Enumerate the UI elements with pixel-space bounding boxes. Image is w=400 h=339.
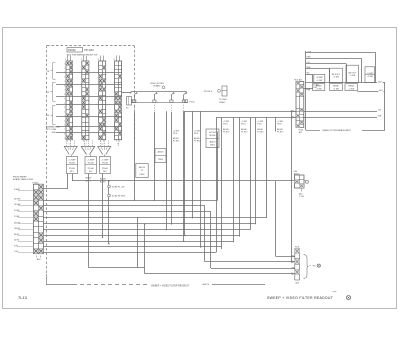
svg-text:2: 2	[64, 68, 65, 70]
svg-text:READOUT INTERFACE ASSY: READOUT INTERFACE ASSY	[323, 129, 352, 132]
svg-text:1 KHZ: 1 KHZ	[14, 216, 20, 218]
svg-text:BOARD VIA A1 P1040: BOARD VIA A1 P1040	[13, 178, 34, 181]
svg-text:P101: P101	[241, 124, 245, 126]
svg-text:1 3: 1 3	[68, 144, 70, 146]
svg-text:A1040: A1040	[100, 178, 107, 181]
svg-text:P101: P101	[277, 124, 281, 126]
svg-text:A1013: A1013	[294, 173, 299, 176]
svg-text:P101: P101	[173, 133, 177, 135]
svg-text:P1 RLY: P1 RLY	[241, 132, 248, 134]
svg-text:RLY: RLY	[70, 171, 74, 173]
svg-text:GRD: GRD	[52, 132, 57, 134]
svg-text:A1013: A1013	[210, 141, 217, 144]
svg-text:+5 SW: +5 SW	[173, 131, 179, 133]
svg-text:P1 RLY: P1 RLY	[223, 132, 230, 134]
svg-text:1 3: 1 3	[117, 144, 119, 146]
svg-text:BOARD: BOARD	[153, 84, 161, 87]
svg-text:RESID: RESID	[316, 86, 322, 88]
svg-text:RE SOLU: RE SOLU	[332, 74, 341, 76]
svg-text:1: 1	[64, 103, 65, 105]
svg-text:P101: P101	[257, 124, 261, 126]
svg-text:+5 SWP: +5 SWP	[316, 77, 324, 79]
svg-text:+5 SW: +5 SW	[277, 121, 283, 123]
svg-text:+5 SW: +5 SW	[333, 77, 339, 79]
svg-text:2: 2	[64, 107, 65, 109]
svg-text:4: 4	[64, 77, 65, 79]
svg-text:A1040: A1040	[194, 137, 199, 140]
svg-text:5: 5	[64, 120, 65, 122]
svg-text:+5 SW: +5 SW	[241, 121, 247, 123]
svg-text:A17: A17	[379, 89, 382, 92]
svg-text:6: 6	[64, 125, 65, 127]
svg-text:P1 RLY: P1 RLY	[257, 132, 264, 134]
svg-text:A10 P6: A10 P6	[203, 283, 210, 286]
svg-text:A10: A10	[296, 282, 299, 285]
svg-text:7L13: 7L13	[18, 295, 28, 300]
svg-text:P1040: P1040	[102, 168, 109, 170]
svg-text:PB 1040: PB 1040	[85, 49, 95, 52]
svg-text:P1040: P1040	[69, 168, 76, 170]
svg-text:P101: P101	[223, 124, 227, 126]
svg-text:+5 SWP: +5 SWP	[101, 160, 109, 162]
svg-text:+5 SW: +5 SW	[257, 121, 263, 123]
svg-text:P1 RLY: P1 RLY	[277, 132, 284, 134]
svg-text:+5 SW: +5 SW	[367, 76, 373, 78]
svg-text:9: 9	[64, 98, 65, 100]
svg-text:+5 SW: +5 SW	[316, 80, 322, 82]
svg-text:VIDEO: VIDEO	[219, 102, 226, 104]
svg-text:5VB: 5VB	[378, 115, 382, 117]
svg-text:+5 SW: +5 SW	[316, 88, 322, 90]
svg-text:SWEEP + VIDEO FILTER READOUT: SWEEP + VIDEO FILTER READOUT	[151, 285, 190, 288]
svg-text:1: 1	[64, 63, 65, 65]
svg-text:6: 6	[64, 85, 65, 87]
svg-text:MODE: MODE	[210, 135, 217, 137]
svg-text:P1040: P1040	[33, 182, 40, 184]
svg-text:P101: P101	[190, 101, 196, 103]
svg-text:ASSEMBLY A10: ASSEMBLY A10	[46, 125, 60, 128]
svg-text:7: 7	[64, 129, 65, 131]
svg-text:+5 SW: +5 SW	[194, 131, 200, 133]
svg-text:RLY: RLY	[89, 171, 93, 173]
svg-text:A17: A17	[299, 131, 302, 134]
svg-text:RLY: RLY	[103, 171, 107, 173]
svg-text:A10: A10	[299, 192, 302, 195]
svg-text:8: 8	[64, 133, 65, 135]
svg-text:+5 SW: +5 SW	[223, 121, 229, 123]
svg-text:P101: P101	[299, 129, 303, 131]
svg-text:RESID: RESID	[333, 86, 339, 88]
svg-text:P1040: P1040	[88, 163, 95, 165]
svg-text:9: 9	[64, 138, 65, 140]
svg-text:SWEEP + VIDEO FILTER READOUT: SWEEP + VIDEO FILTER READOUT	[267, 296, 334, 300]
svg-text:1 3: 1 3	[101, 144, 103, 146]
svg-text:P1040: P1040	[68, 48, 76, 52]
svg-text:A1040: A1040	[277, 128, 282, 131]
svg-text:TO A2 P6 GRD: TO A2 P6 GRD	[112, 194, 126, 197]
svg-text:4: 4	[64, 116, 65, 118]
svg-text:P1013 S: P1013 S	[204, 91, 213, 93]
svg-text:7: 7	[64, 90, 65, 92]
svg-text:+5 SWP: +5 SWP	[87, 160, 95, 162]
svg-text:5 MHZ: 5 MHZ	[14, 189, 21, 191]
svg-text:3: 3	[64, 112, 65, 114]
svg-text:+5 SW: +5 SW	[348, 88, 354, 90]
svg-text:P1040: P1040	[88, 168, 95, 170]
svg-text:P1040: P1040	[102, 163, 109, 165]
svg-text:RESID: RESID	[348, 86, 354, 88]
svg-text:75 OHM: 75 OHM	[219, 99, 227, 101]
svg-text:3: 3	[64, 72, 65, 74]
svg-text:P2 RLY: P2 RLY	[194, 141, 201, 143]
svg-text:TO A2 P5 +5V: TO A2 P5 +5V	[112, 185, 125, 188]
svg-text:P1040: P1040	[69, 163, 76, 165]
svg-text:+5 SW: +5 SW	[349, 75, 355, 77]
svg-text:P 101: P 101	[299, 196, 304, 198]
svg-text:cont: cont	[333, 290, 337, 293]
svg-text:A1013: A1013	[158, 151, 165, 154]
svg-text:P101: P101	[295, 247, 299, 249]
svg-text:+5 SW: +5 SW	[333, 88, 339, 90]
svg-text:BOTTOM WIRING FRONT VW: BOTTOM WIRING FRONT VW	[67, 55, 98, 57]
svg-text:+5 SWP: +5 SWP	[68, 160, 76, 162]
svg-text:A1040: A1040	[241, 128, 246, 131]
svg-text:P101: P101	[194, 133, 198, 135]
svg-text:+5 SWP: +5 SWP	[366, 73, 374, 75]
svg-text:OPT CONN: OPT CONN	[46, 129, 57, 131]
svg-text:10 KHZ: 10 KHZ	[14, 204, 21, 206]
svg-text:P2 RLY: P2 RLY	[173, 141, 180, 143]
svg-text:A/D OUT: A/D OUT	[348, 71, 357, 74]
svg-text:5: 5	[64, 81, 65, 83]
svg-text:8: 8	[64, 94, 65, 96]
svg-text:A17: A17	[378, 80, 381, 83]
svg-text:A1040: A1040	[173, 137, 178, 140]
svg-text:A1013: A1013	[139, 166, 146, 169]
svg-text:A 7504: A 7504	[209, 131, 216, 134]
svg-text:P101 A17: P101 A17	[294, 79, 302, 82]
svg-text:A1040: A1040	[223, 128, 228, 131]
svg-text:A1040: A1040	[257, 128, 262, 131]
